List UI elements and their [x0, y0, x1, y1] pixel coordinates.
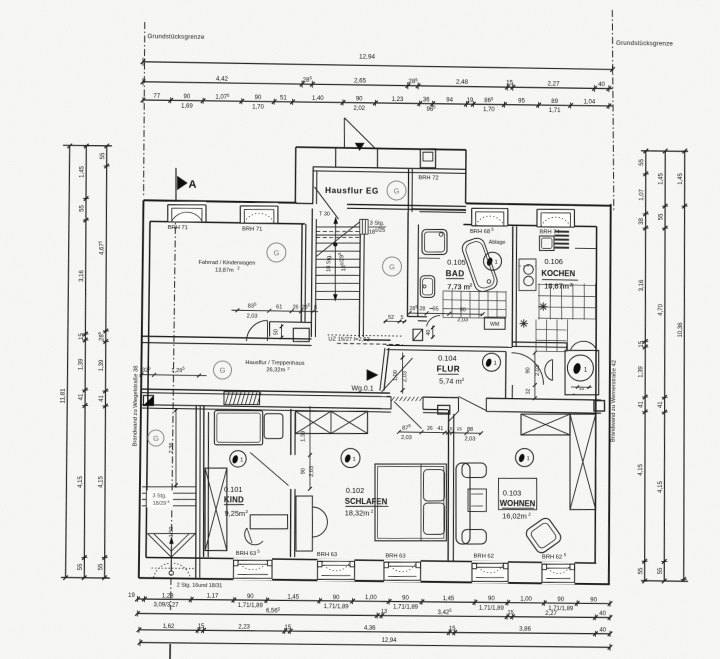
- svg-text:89: 89: [551, 99, 558, 105]
- outer wall right inner face: [592, 227, 599, 564]
- svg-text:1: 1: [526, 456, 529, 462]
- svg-text:Ablage: Ablage: [489, 240, 506, 246]
- dim 40 shaft: [432, 326, 434, 339]
- entrance canopy triangle: [343, 118, 346, 149]
- vestibule bottom wall lines: [347, 204, 466, 206]
- svg-text:1,00: 1,00: [365, 595, 377, 601]
- svg-text:90: 90: [590, 597, 597, 603]
- svg-text:1,45: 1,45: [678, 172, 684, 184]
- svg-text:90: 90: [557, 597, 564, 603]
- wohnen sofa: [456, 463, 470, 544]
- svg-text:Fahrrad / Kinderwagen: Fahrrad / Kinderwagen: [198, 260, 255, 267]
- svg-text:WM: WM: [490, 322, 499, 328]
- svg-text:19: 19: [128, 593, 135, 599]
- wohnen door opening and leaf: [458, 396, 486, 410]
- staircase diagonal: [316, 221, 359, 257]
- svg-text:2,23: 2,23: [238, 624, 250, 630]
- entrance arrow: [355, 143, 364, 150]
- svg-text:41: 41: [639, 400, 645, 407]
- svg-text:8: 8: [314, 305, 317, 311]
- dim 90/2,03 kind-schlafen door: [309, 406, 311, 489]
- washing machine WM: [484, 317, 505, 329]
- svg-text:88: 88: [467, 427, 473, 433]
- bad door step walls: [407, 315, 427, 317]
- kochen sink unit top: [540, 236, 555, 251]
- kochen counter edge line to right wall: [575, 247, 596, 249]
- kind/schlafen wall lower segment: [290, 489, 291, 557]
- svg-text:2,03: 2,03: [535, 365, 541, 376]
- svg-text:UZ 15/27 l=2,62: UZ 15/27 l=2,62: [328, 337, 369, 344]
- svg-text:WOHNEN: WOHNEN: [500, 499, 536, 508]
- flur top wall lines: [386, 345, 512, 347]
- kochen bottom wall lines: [512, 341, 567, 344]
- right dim top tick line: [641, 150, 688, 153]
- svg-text:1,39: 1,39: [79, 358, 85, 370]
- left col inner ticks+labels: [104, 144, 109, 149]
- window bay BRH72: [420, 149, 435, 168]
- svg-text:Grundstücksgrenze: Grundstücksgrenze: [616, 40, 673, 48]
- schlafen pillows: [424, 470, 445, 501]
- svg-text:13,87m: 13,87m: [215, 267, 234, 273]
- svg-text:41: 41: [79, 393, 85, 400]
- svg-text:26: 26: [427, 426, 433, 432]
- section line A-A dash-dot: [170, 200, 176, 610]
- svg-text:4,15: 4,15: [638, 463, 644, 475]
- right col outer ticks+labels: [682, 149, 687, 154]
- svg-text:3,16: 3,16: [639, 279, 645, 291]
- svg-text:1,07: 1,07: [639, 188, 645, 200]
- dim 1,00/2,03 apartment door: [402, 352, 403, 393]
- kind desk: [250, 515, 287, 529]
- right dim bottom tick line: [641, 580, 688, 583]
- window BRH 63-5 (KIND): [233, 558, 272, 580]
- left col outer ticks: [67, 144, 72, 149]
- heater door arc: [545, 359, 553, 380]
- wohnen door second leaf mark: [449, 411, 459, 422]
- flur bottom wall lines with schlafen door opening: [387, 396, 392, 398]
- svg-text:1,39: 1,39: [99, 359, 105, 371]
- svg-text:51: 51: [280, 96, 287, 102]
- svg-text:2,36: 2,36: [169, 443, 175, 454]
- exterior 2 steps with arc: [153, 563, 190, 578]
- svg-text:15: 15: [447, 426, 453, 432]
- svg-text:1,70: 1,70: [483, 107, 495, 113]
- svg-text:1: 1: [352, 457, 355, 463]
- detector symbol BAD: [483, 252, 501, 270]
- svg-text:1,71: 1,71: [549, 108, 561, 114]
- svg-text:50: 50: [273, 329, 279, 335]
- detector symbol WOHNEN: [515, 448, 533, 466]
- flur right wall (kochen side): [504, 352, 507, 399]
- schlafen wardrobe with X: [295, 411, 367, 433]
- svg-text:1: 1: [494, 260, 497, 266]
- svg-text:90: 90: [333, 595, 340, 601]
- svg-text:G: G: [220, 366, 226, 375]
- svg-text:13: 13: [381, 609, 387, 615]
- kind wardrobe with X: [205, 468, 227, 551]
- apartment door Wg0.1 leaf: [382, 358, 413, 393]
- vestibule room left wall: [312, 167, 315, 204]
- svg-text:55: 55: [639, 158, 645, 165]
- svg-text:1,50: 1,50: [169, 527, 175, 538]
- svg-text:77: 77: [153, 94, 160, 100]
- left dim column inner: [101, 146, 110, 578]
- svg-text:26,32m: 26,32m: [266, 367, 285, 373]
- corridor bottom wall lower lines (kind/schlafen top): [142, 405, 391, 409]
- svg-text:41: 41: [437, 426, 443, 432]
- vestibule outer top wall: [296, 147, 466, 150]
- svg-text:16,02m: 16,02m: [502, 511, 527, 520]
- right col middle ticks+labels: [663, 149, 668, 154]
- kind/schlafen wall upper segment: [290, 409, 291, 455]
- dimension line bottom row2: [137, 611, 610, 619]
- corridor dim 32-5 / 1,29-5: [140, 375, 207, 376]
- room label WOHNEN 0.103 with box: [499, 478, 537, 509]
- stair hall / bad wall: [407, 212, 409, 317]
- window BRH 63 (SCHLAFEN right): [384, 560, 421, 582]
- svg-text:Brandwand zu Wernerstraße 42: Brandwand zu Wernerstraße 42: [611, 360, 618, 442]
- vestibule outer left wall: [294, 147, 297, 203]
- outer wall left: [139, 200, 144, 578]
- svg-text:90: 90: [184, 94, 191, 100]
- symbol G stair hall: [382, 257, 401, 276]
- svg-text:1,17: 1,17: [207, 594, 219, 600]
- svg-text:3,86: 3,86: [519, 627, 531, 633]
- right dim column outer: [679, 151, 689, 581]
- left bay inner bottom line: [146, 556, 196, 559]
- flur slanted left wall: [384, 348, 389, 391]
- dim bad door 28-5/28/-65/90/2,03: [409, 313, 482, 314]
- UZ beam dotted lines: [328, 335, 403, 336]
- bad washbasin: [420, 276, 434, 298]
- dim 52/5 stair hall: [384, 320, 406, 322]
- heater niche walls: [566, 343, 568, 351]
- svg-text:90: 90: [460, 307, 466, 313]
- svg-text:19: 19: [467, 98, 474, 104]
- svg-text:4,42: 4,42: [216, 75, 229, 82]
- svg-text:90: 90: [255, 95, 262, 101]
- svg-text:BRH 68: BRH 68: [470, 229, 490, 235]
- svg-text:5: 5: [401, 315, 404, 321]
- svg-text:BAD: BAD: [446, 269, 465, 278]
- svg-text:1,00: 1,00: [520, 597, 532, 603]
- outer wall left inner face: [146, 221, 151, 557]
- right dim column middle: [660, 151, 670, 581]
- svg-text:1,71/1,89: 1,71/1,89: [479, 606, 505, 612]
- dim line above schlafen 87-5/26/41/15/15/88: [399, 432, 481, 433]
- svg-text:90: 90: [525, 367, 531, 373]
- dimension line top row2: [143, 82, 613, 89]
- svg-text:90: 90: [488, 596, 495, 602]
- section marker A: [175, 168, 178, 200]
- svg-text:38: 38: [639, 217, 645, 224]
- right dim column inner: [640, 151, 650, 581]
- svg-text:15: 15: [507, 610, 513, 616]
- svg-text:10 Stg.: 10 Stg.: [326, 254, 332, 272]
- property line left (Grundstuecksgrenze): [142, 22, 145, 197]
- dimension line top row3: [143, 100, 613, 106]
- svg-text:18,32m: 18,32m: [345, 508, 370, 517]
- svg-text:BRH 62: BRH 62: [542, 554, 562, 560]
- dimension line bottom row3: [139, 628, 610, 636]
- wohnen wardrobe horizontal with X: [521, 414, 570, 435]
- svg-text:1,00: 1,00: [393, 370, 399, 381]
- svg-text:2,03: 2,03: [247, 314, 258, 320]
- svg-text:55: 55: [638, 567, 644, 574]
- schlafen desk and chair: [296, 496, 312, 551]
- window BRH 74 (KOCHEN): [537, 206, 574, 227]
- svg-text:FLUR: FLUR: [437, 365, 461, 374]
- schlafen bed: [375, 464, 446, 541]
- svg-text:18/29: 18/29: [153, 501, 167, 507]
- svg-text:Hausflur / Treppenhaus: Hausflur / Treppenhaus: [245, 360, 304, 367]
- symbol G corridor: [213, 361, 231, 379]
- left dim top tick line: [63, 144, 112, 147]
- kochen tile grid lower part: [535, 320, 538, 352]
- outer wall top-right inner face: [463, 224, 596, 226]
- stair well left wall: [311, 208, 313, 337]
- staircase dashed cut lines: [316, 231, 359, 232]
- kochen floor tile grid: [538, 283, 541, 319]
- svg-text:1,69: 1,69: [181, 103, 193, 109]
- svg-text:55: 55: [78, 563, 84, 570]
- svg-text:3,09/3,27: 3,09/3,27: [153, 602, 179, 608]
- svg-text:Hausflur EG: Hausflur EG: [325, 186, 379, 196]
- fahrrad room door swing arc: [246, 320, 267, 341]
- symbol G hausflur EG: [387, 181, 406, 200]
- svg-text:55: 55: [659, 213, 665, 220]
- kind pillow: [264, 414, 283, 439]
- outer wall top-left inner face: [150, 221, 305, 223]
- svg-text:41: 41: [99, 394, 105, 401]
- dim 2,36 left bay: [175, 408, 177, 488]
- left bay right wall: [194, 406, 198, 578]
- vestibule niche bottom wall: [412, 208, 466, 211]
- fahrrad room bottom-right notch wall: [270, 321, 312, 324]
- svg-text:BRH 63: BRH 63: [236, 551, 256, 557]
- svg-text:10,36: 10,36: [678, 322, 684, 338]
- vestibule room top wall lines: [313, 167, 466, 170]
- svg-text:15: 15: [506, 80, 514, 87]
- svg-text:G: G: [389, 262, 395, 271]
- svg-text:0.106: 0.106: [544, 257, 563, 266]
- svg-text:40: 40: [599, 611, 606, 617]
- svg-text:1,70: 1,70: [252, 104, 264, 110]
- staircase direction arrow: [333, 242, 337, 246]
- label Wg 0.1 with arrow: [367, 370, 378, 381]
- svg-text:1,45: 1,45: [80, 165, 86, 177]
- svg-text:1,71/1,89: 1,71/1,89: [324, 604, 350, 610]
- fahrrad door dim line 83-5/61/26/28-5/8: [231, 310, 318, 311]
- kochen counter hatch rows: [555, 230, 570, 232]
- svg-text:40: 40: [598, 81, 606, 88]
- svg-text:G: G: [273, 248, 279, 257]
- vestibule outer right wall: [465, 150, 466, 204]
- svg-text:26: 26: [293, 304, 299, 310]
- svg-text:KOCHEN: KOCHEN: [541, 269, 575, 278]
- property line right (Grundstuecksgrenze): [610, 10, 617, 212]
- svg-text:4,36: 4,36: [364, 626, 376, 632]
- svg-text:1,40: 1,40: [312, 96, 324, 102]
- schlafen door leaf: [394, 402, 422, 429]
- svg-text:55: 55: [98, 563, 104, 570]
- svg-text:1,45: 1,45: [287, 594, 299, 600]
- svg-text:28: 28: [419, 306, 425, 312]
- corridor top wall lines: [142, 336, 311, 339]
- fahrrad pillar with 50 dim: [293, 328, 309, 341]
- window BRH 62 (WOHNEN left): [472, 561, 508, 583]
- chimney hatched block (corridor): [224, 392, 260, 405]
- svg-text:2,03: 2,03: [309, 466, 315, 477]
- bathtub rotated: [460, 236, 499, 294]
- svg-text:1,71/1,89: 1,71/1,89: [238, 603, 264, 609]
- svg-text:T 30: T 30: [319, 211, 330, 217]
- outer wall top-right: [466, 203, 611, 205]
- stove symbol 2: [520, 322, 528, 324]
- svg-text:G: G: [394, 186, 400, 195]
- svg-text:52: 52: [388, 315, 394, 321]
- svg-text:32: 32: [525, 388, 531, 394]
- wohnen sofa table: [468, 489, 486, 512]
- svg-text:90: 90: [301, 468, 307, 474]
- svg-text:55: 55: [79, 204, 85, 211]
- svg-text:Wg.0.1: Wg.0.1: [351, 385, 373, 392]
- outer wall bottom inner face: [146, 557, 596, 563]
- svg-text:2,03: 2,03: [401, 435, 412, 441]
- svg-text:1,39: 1,39: [300, 431, 306, 442]
- svg-text:65: 65: [432, 307, 438, 313]
- wohnen wardrobe vertical with X: [570, 414, 596, 510]
- kochen left counter dashed: [519, 259, 536, 291]
- svg-text:4,15: 4,15: [658, 480, 664, 492]
- svg-text:1,45: 1,45: [659, 172, 665, 184]
- svg-text:0.105: 0.105: [447, 258, 466, 267]
- outer wall bottom outer face: [139, 578, 610, 584]
- wohnen armchair rotated: [524, 516, 563, 555]
- svg-text:1,39: 1,39: [639, 365, 645, 377]
- corridor bottom wall right segment (wohnen top wall): [486, 398, 601, 400]
- svg-text:15: 15: [284, 625, 291, 631]
- svg-text:4,15: 4,15: [98, 475, 104, 487]
- svg-text:0.103: 0.103: [503, 488, 522, 497]
- svg-text:15: 15: [198, 624, 205, 630]
- symbol G fahrrad room: [267, 243, 286, 262]
- flue box in wohnen top wall: [594, 401, 605, 411]
- left col middle ticks+labels: [84, 144, 89, 149]
- svg-text:4,15: 4,15: [78, 475, 84, 487]
- svg-text:BRH 63: BRH 63: [317, 552, 337, 558]
- svg-text:2,65: 2,65: [354, 77, 367, 84]
- svg-text:2,48: 2,48: [456, 79, 469, 86]
- svg-text:61: 61: [276, 304, 282, 310]
- svg-text:Brandwand zu Wiegelstraße 38: Brandwand zu Wiegelstraße 38: [133, 366, 140, 447]
- svg-text:G: G: [153, 434, 159, 443]
- svg-text:BRH 62: BRH 62: [474, 553, 494, 559]
- svg-text:15: 15: [457, 426, 463, 432]
- svg-text:7: 7: [572, 393, 578, 396]
- svg-text:5,74 m: 5,74 m: [439, 376, 462, 385]
- bad-kochen divider wall: [511, 226, 514, 347]
- left dim column outer 11,81: [64, 146, 71, 578]
- svg-text:SCHLAFEN: SCHLAFEN: [345, 497, 388, 507]
- svg-text:1: 1: [493, 361, 496, 367]
- kind bed: [214, 411, 262, 445]
- window BRH 62-5 (WOHNEN right): [542, 562, 575, 584]
- svg-text:3 Stg.: 3 Stg.: [152, 493, 166, 499]
- svg-text:90: 90: [402, 596, 409, 602]
- svg-text:15: 15: [449, 626, 456, 632]
- dimension line total width 12,94 (top): [143, 62, 613, 70]
- svg-text:BRH 63: BRH 63: [385, 553, 405, 559]
- svg-text:Grundstücksgrenze: Grundstücksgrenze: [147, 33, 204, 41]
- schlafen/wohnen wall: [447, 410, 450, 561]
- svg-text:11,81: 11,81: [59, 388, 66, 404]
- svg-text:1,23: 1,23: [392, 97, 404, 103]
- detector symbol KIND: [230, 451, 247, 468]
- svg-text:3,16: 3,16: [79, 269, 85, 281]
- svg-text:1,04: 1,04: [583, 99, 595, 105]
- svg-text:90: 90: [356, 96, 363, 102]
- svg-text:9,25m: 9,25m: [224, 509, 245, 518]
- dimension line bottom row1 (windows): [137, 597, 610, 605]
- svg-text:1,45: 1,45: [443, 596, 455, 602]
- corridor bottom wall upper lines: [142, 389, 390, 393]
- left dim bottom tick line: [61, 576, 110, 579]
- svg-text:90: 90: [247, 594, 254, 600]
- svg-text:0.102: 0.102: [346, 486, 365, 495]
- svg-text:41: 41: [658, 401, 664, 408]
- svg-text:55: 55: [658, 567, 664, 574]
- svg-text:94: 94: [446, 98, 453, 104]
- heater unit (Therme): [565, 350, 599, 394]
- svg-text:2,03: 2,03: [457, 317, 468, 323]
- left dim column middle: [81, 146, 90, 578]
- svg-text:1: 1: [240, 458, 243, 464]
- vestibule niche divider wall: [407, 169, 410, 212]
- svg-text:BRH 71: BRH 71: [168, 225, 188, 231]
- svg-text:BRH 71: BRH 71: [242, 226, 262, 232]
- window BRH 71 (right): [240, 203, 278, 224]
- stair well right wall: [359, 234, 361, 337]
- kind room left wall: [202, 406, 206, 557]
- svg-text:1,28: 1,28: [162, 593, 174, 599]
- bad shower tray: [422, 229, 447, 254]
- symbol G left bay: [148, 430, 164, 446]
- svg-text:12,94: 12,94: [381, 638, 397, 644]
- svg-text:55: 55: [100, 152, 106, 159]
- window BRH 63 (SCHLAFEN left): [317, 559, 354, 581]
- bad floor tile grid: [442, 291, 445, 318]
- svg-text:2,03: 2,03: [402, 371, 408, 382]
- svg-text:40: 40: [599, 628, 606, 634]
- svg-text:1,62: 1,62: [163, 624, 175, 630]
- wohnen door pillar: [438, 405, 450, 414]
- svg-text:A: A: [188, 179, 196, 191]
- detector symbol SCHLAFEN: [341, 448, 360, 467]
- left bay 3 Stg steps: [142, 486, 196, 487]
- shaft square with diagonal (near bad door): [413, 329, 423, 340]
- main staircase treads (10 Stg): [316, 226, 359, 227]
- svg-text:3 Stg.: 3 Stg.: [370, 220, 385, 226]
- svg-text:2,02: 2,02: [353, 106, 365, 112]
- svg-text:4,70: 4,70: [658, 303, 664, 315]
- svg-text:2 Stg. 16und 18/31: 2 Stg. 16und 18/31: [177, 583, 223, 590]
- svg-text:2,27: 2,27: [547, 80, 560, 87]
- bad door swing arc: [427, 315, 441, 326]
- kochen door swing arc: [511, 353, 544, 385]
- outer wall top-left: [143, 200, 296, 203]
- svg-text:BRH 72: BRH 72: [418, 175, 438, 181]
